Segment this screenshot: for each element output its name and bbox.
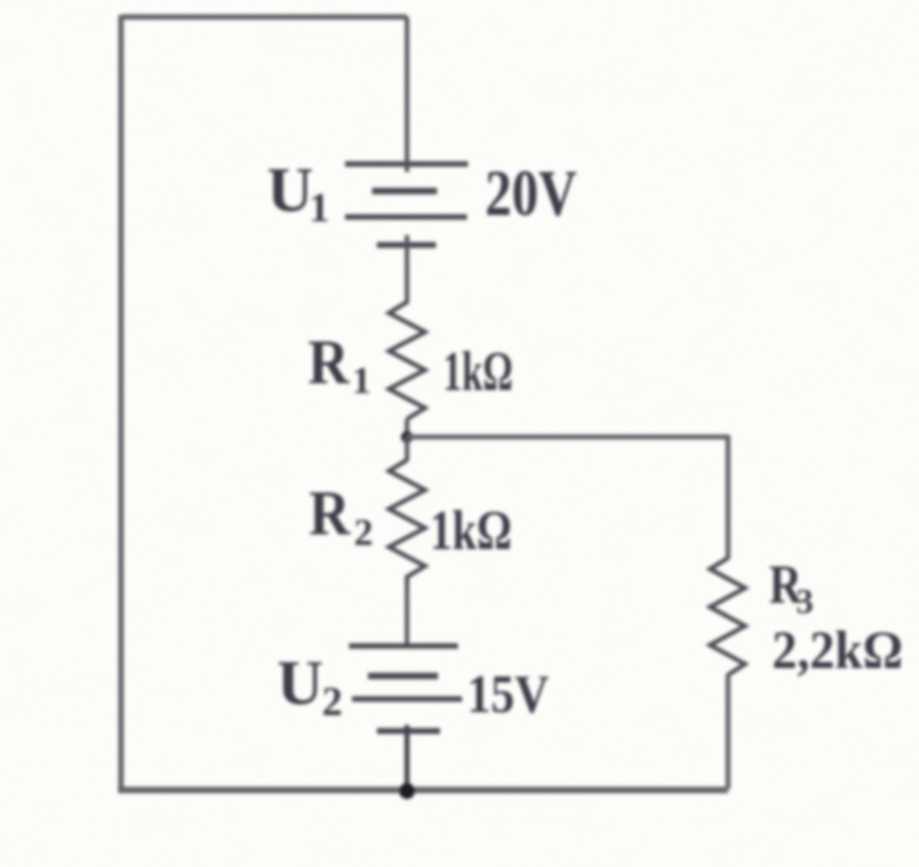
resistor R3 zigzag (710, 558, 745, 675)
wire bottom (118, 787, 728, 794)
svg-text:1: 1 (309, 184, 330, 230)
svg-text:20V: 20V (485, 157, 577, 230)
resistor R1 zigzag (389, 302, 425, 419)
node A junction dot (401, 431, 413, 443)
resistor R2 zigzag (389, 460, 425, 585)
wire R3 to bottom (726, 674, 731, 789)
wire R2 to U2 (405, 584, 410, 646)
battery U1 plate short (372, 188, 437, 195)
svg-text:R: R (309, 477, 351, 548)
wire right branch down to R3 (726, 435, 731, 559)
wire U1 top lead (405, 17, 410, 172)
svg-text:R: R (308, 326, 350, 397)
svg-text:3: 3 (796, 582, 814, 621)
wire node A to R2 (405, 437, 410, 461)
svg-text:15V: 15V (467, 664, 549, 724)
junction dot bottom node (399, 783, 415, 799)
battery U1 plate short bottom (377, 242, 436, 248)
svg-text:1kΩ: 1kΩ (430, 500, 512, 562)
wire U1 to R1 (405, 235, 410, 304)
svg-text:2: 2 (322, 678, 343, 724)
battery U1 plate long top (345, 161, 468, 167)
battery U2 plate long bottom (352, 696, 462, 702)
svg-text:1: 1 (352, 360, 371, 402)
svg-text:1kΩ: 1kΩ (443, 341, 513, 403)
svg-text:U: U (267, 154, 313, 225)
battery U2 plate short (368, 673, 438, 680)
wire R1 to node A (405, 419, 410, 437)
wire node A to right branch (407, 435, 728, 440)
svg-text:2,2kΩ: 2,2kΩ (772, 620, 903, 680)
wire top (121, 14, 407, 20)
wire left (118, 15, 124, 790)
svg-text:2: 2 (354, 512, 373, 554)
battery U2 plate short bottom (377, 728, 440, 734)
wire U2 to bottom (405, 725, 410, 789)
battery U1 plate long bottom (345, 214, 467, 220)
svg-text:U: U (277, 647, 323, 718)
battery U2 plate long top (349, 643, 458, 649)
